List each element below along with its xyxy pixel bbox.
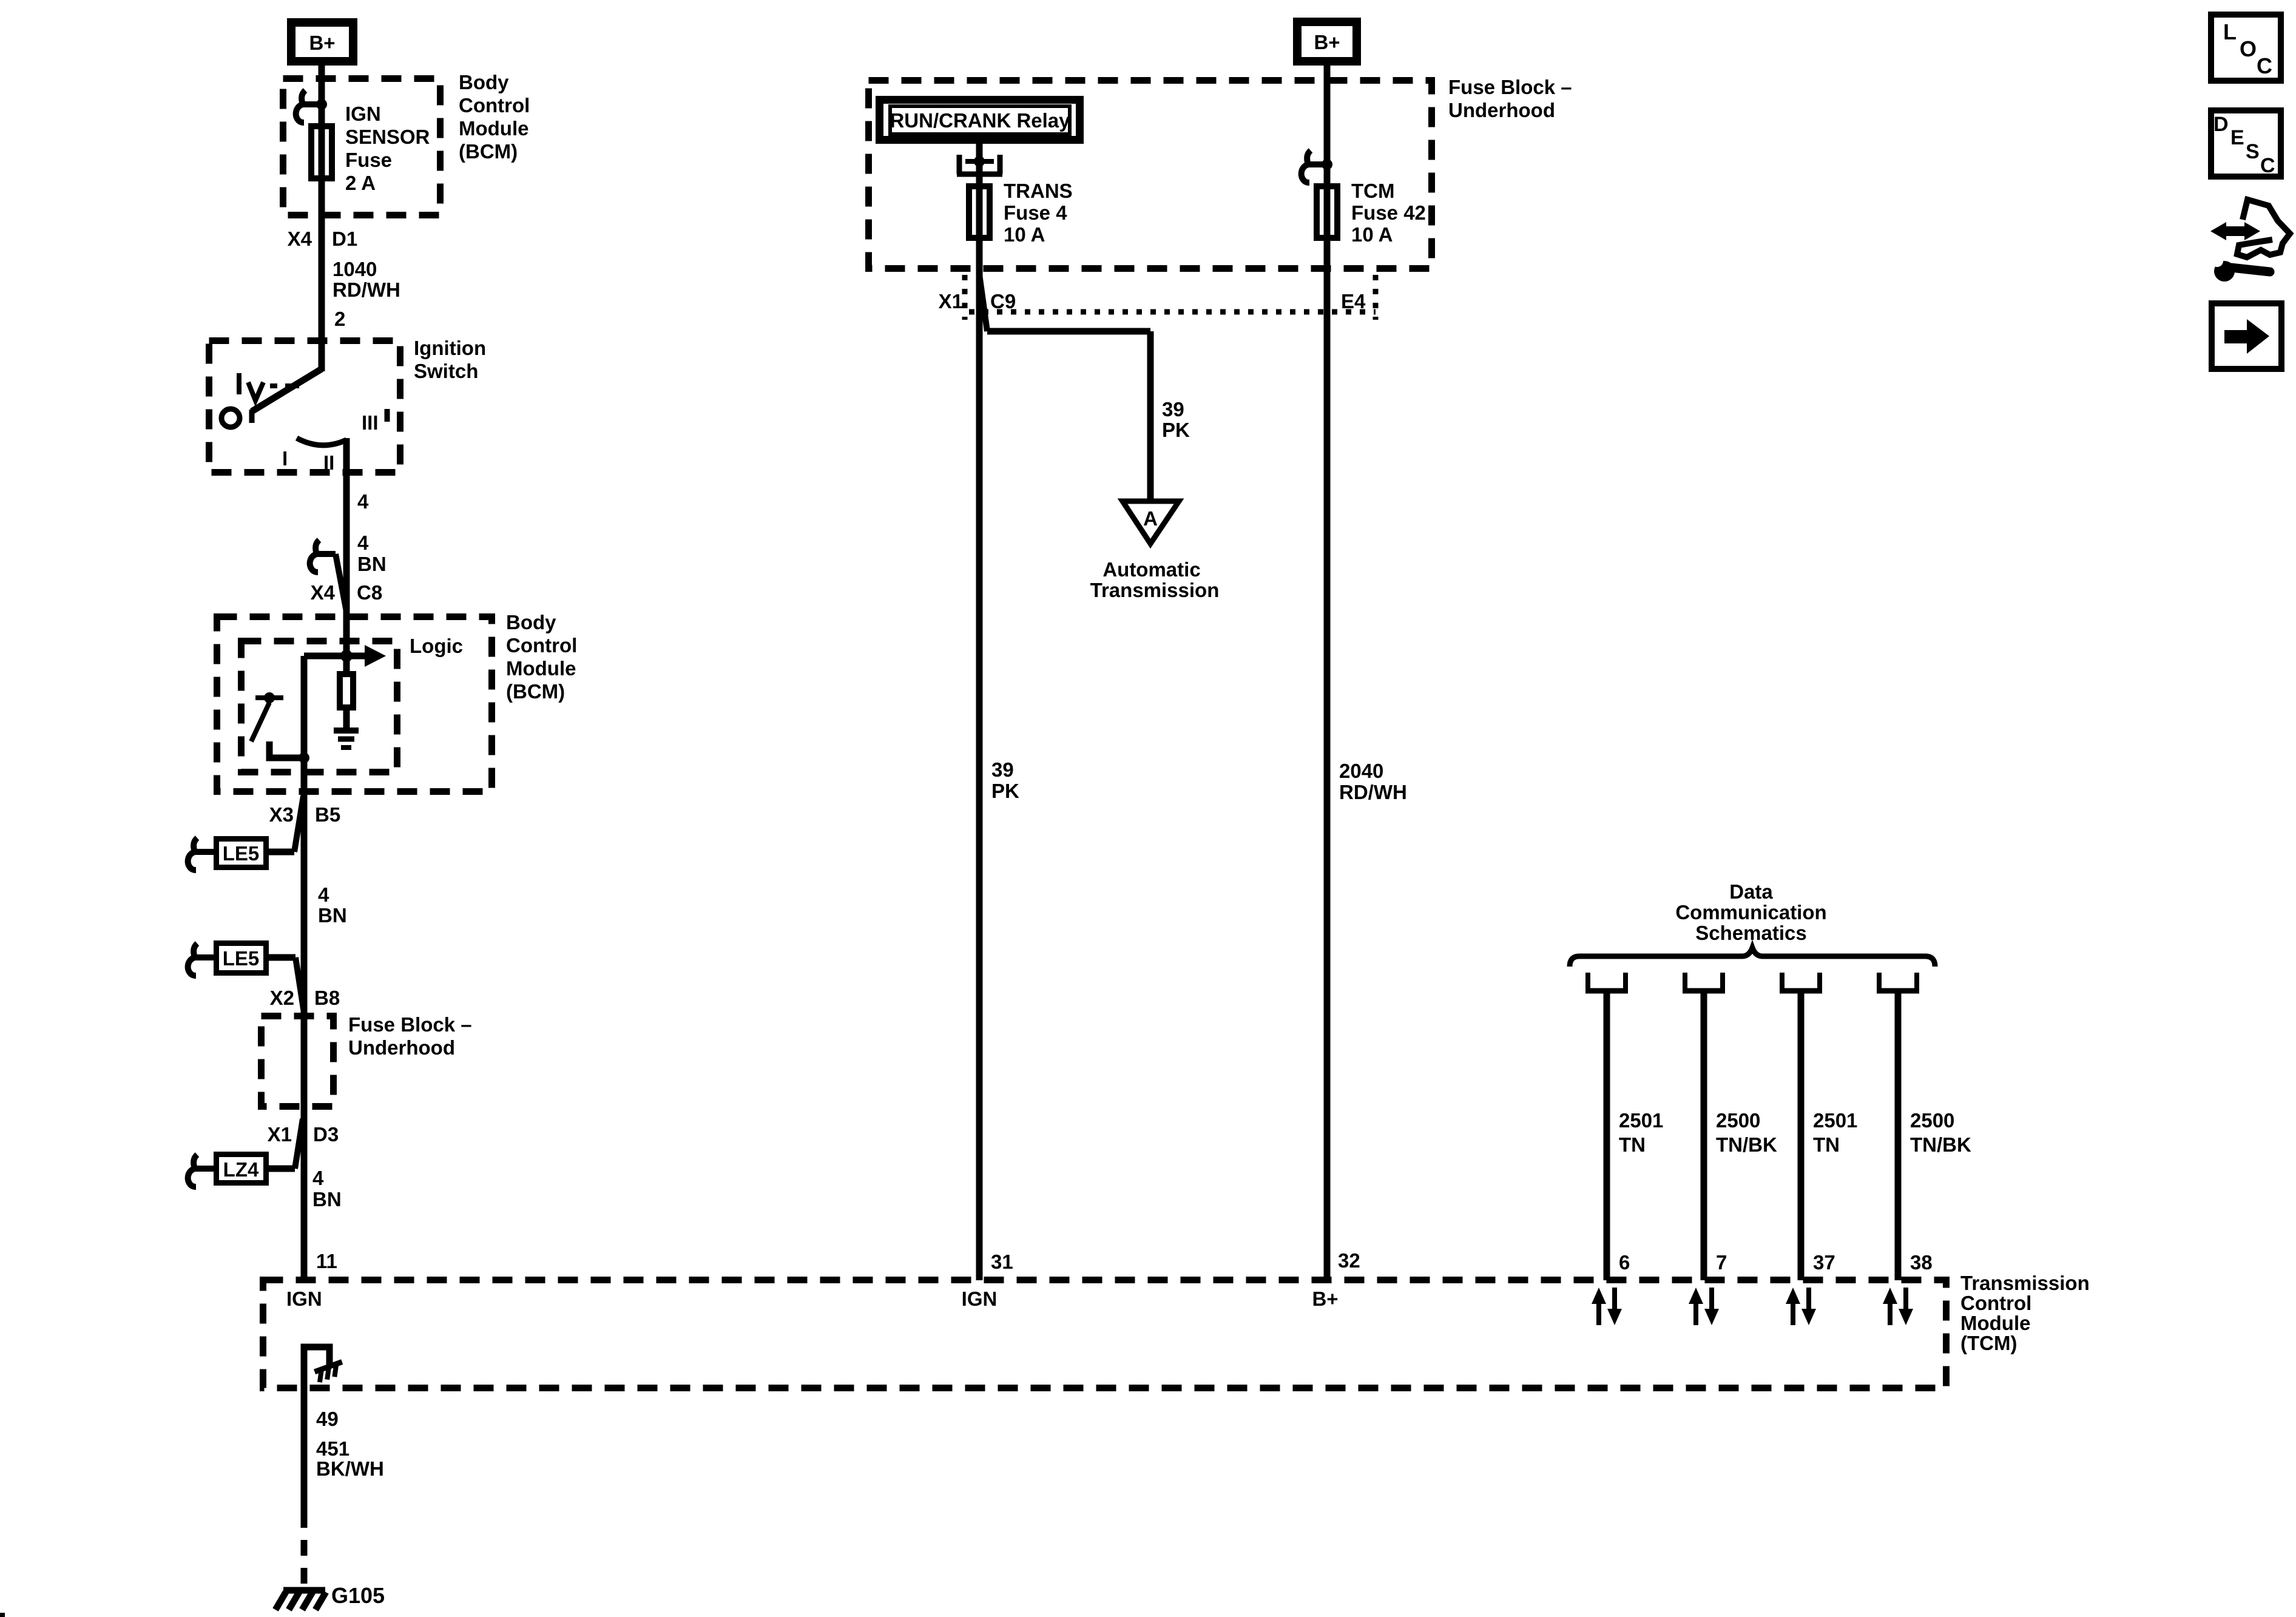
svg-text:X2: X2 (270, 987, 294, 1009)
svg-text:TCM: TCM (1351, 180, 1394, 202)
svg-text:10 A: 10 A (1004, 223, 1045, 246)
svg-text:4: 4 (357, 490, 369, 513)
svg-text:38: 38 (1910, 1251, 1933, 1274)
svg-text:G105: G105 (331, 1583, 385, 1608)
svg-text:Underhood: Underhood (348, 1036, 455, 1059)
svg-text:X4: X4 (288, 228, 312, 250)
svg-text:(BCM): (BCM) (459, 140, 518, 163)
svg-text:Control: Control (459, 94, 530, 116)
svg-text:RD/WH: RD/WH (333, 279, 400, 301)
svg-text:I: I (282, 447, 288, 470)
svg-text:TRANS: TRANS (1004, 180, 1073, 202)
svg-text:2501: 2501 (1619, 1109, 1663, 1132)
svg-text:LZ4: LZ4 (223, 1158, 259, 1181)
svg-text:BK/WH: BK/WH (316, 1457, 384, 1480)
svg-text:C: C (2257, 53, 2272, 78)
svg-text:Schematics: Schematics (1695, 922, 1806, 944)
svg-text:Body: Body (459, 71, 509, 93)
svg-text:X1: X1 (268, 1123, 292, 1146)
svg-text:Module: Module (1960, 1312, 2030, 1334)
svg-text:TN/BK: TN/BK (1716, 1133, 1777, 1156)
svg-text:C: C (2260, 154, 2275, 177)
svg-text:III: III (362, 411, 379, 434)
svg-text:2040: 2040 (1339, 760, 1383, 782)
svg-text:Underhood: Underhood (1448, 99, 1555, 121)
svg-text:451: 451 (316, 1437, 349, 1460)
svg-text:TN/BK: TN/BK (1910, 1133, 1971, 1156)
svg-text:39: 39 (1162, 398, 1184, 420)
svg-text:Logic: Logic (410, 635, 463, 657)
svg-text:X1: X1 (939, 290, 963, 312)
svg-text:O: O (2240, 36, 2257, 61)
svg-text:TN: TN (1619, 1133, 1646, 1156)
svg-text:Body: Body (506, 611, 556, 633)
svg-text:Fuse Block –: Fuse Block – (348, 1013, 472, 1036)
svg-text:TN: TN (1813, 1133, 1840, 1156)
svg-text:(BCM): (BCM) (506, 680, 565, 703)
svg-text:Data: Data (1729, 880, 1773, 903)
svg-text:L: L (2223, 19, 2237, 44)
svg-text:Fuse 42: Fuse 42 (1351, 201, 1426, 224)
svg-text:BN: BN (312, 1188, 342, 1210)
svg-text:PK: PK (1162, 419, 1190, 441)
svg-text:49: 49 (316, 1408, 339, 1430)
svg-text:RUN/CRANK Relay: RUN/CRANK Relay (890, 109, 1070, 132)
svg-text:2500: 2500 (1716, 1109, 1760, 1132)
svg-text:X4: X4 (311, 581, 336, 604)
svg-text:D1: D1 (332, 228, 357, 250)
svg-text:Transmission: Transmission (1090, 579, 1220, 601)
svg-text:2: 2 (334, 308, 345, 330)
svg-text:6: 6 (1619, 1251, 1630, 1274)
svg-text:Communication: Communication (1675, 901, 1826, 923)
svg-text:Transmission: Transmission (1960, 1272, 2090, 1294)
svg-text:Fuse Block –: Fuse Block – (1448, 76, 1572, 98)
svg-text:BN: BN (357, 553, 387, 575)
svg-text:LE5: LE5 (223, 947, 260, 970)
svg-text:C9: C9 (990, 290, 1016, 312)
svg-text:E4: E4 (1341, 290, 1366, 312)
svg-text:(TCM): (TCM) (1960, 1332, 2017, 1354)
svg-text:IGN: IGN (286, 1288, 322, 1310)
svg-text:B8: B8 (314, 987, 340, 1009)
svg-text:E: E (2230, 126, 2244, 149)
svg-text:Control: Control (506, 634, 577, 657)
svg-text:2501: 2501 (1813, 1109, 1857, 1132)
svg-text:Ignition: Ignition (414, 337, 486, 359)
svg-text:Switch: Switch (414, 360, 478, 382)
svg-text:7: 7 (1716, 1251, 1727, 1274)
svg-text:32: 32 (1338, 1249, 1360, 1272)
svg-text:37: 37 (1813, 1251, 1835, 1274)
svg-text:Fuse 4: Fuse 4 (1004, 201, 1067, 224)
svg-text:D3: D3 (313, 1123, 339, 1146)
svg-text:PK: PK (991, 780, 1019, 802)
svg-text:Fuse: Fuse (345, 149, 392, 171)
svg-text:Module: Module (459, 117, 528, 140)
svg-text:11: 11 (316, 1250, 337, 1272)
svg-text:31: 31 (991, 1251, 1013, 1273)
svg-text:B+: B+ (1312, 1288, 1338, 1310)
svg-text:A: A (1143, 507, 1158, 530)
svg-text:IGN: IGN (345, 103, 381, 125)
svg-text:LE5: LE5 (223, 842, 260, 865)
svg-text:10 A: 10 A (1351, 223, 1393, 246)
svg-text:4: 4 (318, 883, 329, 906)
svg-text:B+: B+ (1314, 31, 1340, 53)
svg-text:Module: Module (506, 657, 576, 680)
svg-text:RD/WH: RD/WH (1339, 781, 1407, 803)
svg-text:1040: 1040 (333, 258, 377, 280)
svg-text:4: 4 (357, 532, 369, 554)
svg-text:B5: B5 (315, 803, 340, 826)
svg-text:B+: B+ (309, 32, 335, 54)
svg-text:2500: 2500 (1910, 1109, 1954, 1132)
svg-text:C8: C8 (357, 581, 382, 604)
svg-text:S: S (2246, 140, 2260, 163)
svg-text:39: 39 (991, 758, 1014, 781)
svg-text:X3: X3 (269, 803, 294, 826)
svg-text:SENSOR: SENSOR (345, 126, 430, 148)
svg-text:2 A: 2 A (345, 172, 376, 194)
svg-text:BN: BN (318, 904, 347, 927)
svg-text:IGN: IGN (962, 1288, 998, 1310)
svg-text:Control: Control (1960, 1292, 2031, 1314)
svg-text:4: 4 (312, 1167, 324, 1189)
svg-text:D: D (2213, 113, 2229, 136)
svg-text:II: II (323, 451, 334, 474)
svg-text:Automatic: Automatic (1102, 558, 1200, 581)
